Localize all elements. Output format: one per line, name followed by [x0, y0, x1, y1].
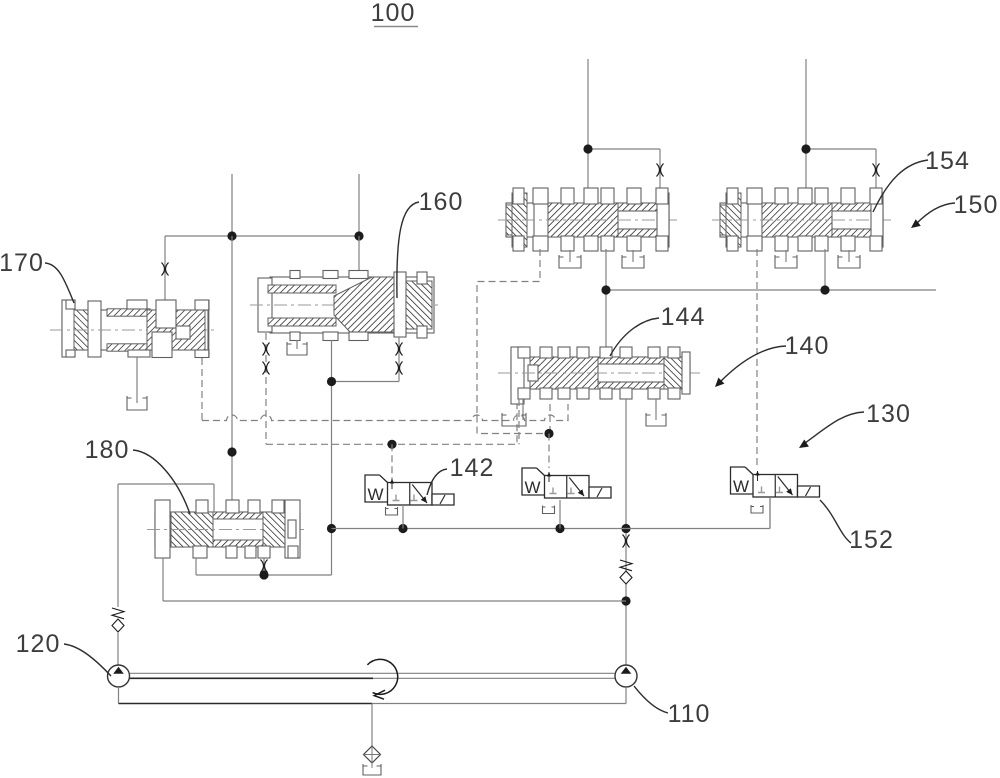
- label 154: [925, 147, 970, 175]
- label 140: [785, 332, 830, 360]
- label 120: [16, 630, 61, 658]
- tank under filter: [363, 764, 381, 775]
- tank under valve150L port2: [622, 250, 644, 268]
- tank under valve144 right: [646, 399, 666, 426]
- throttle on x165: [162, 263, 169, 276]
- throttle on x876: [873, 164, 880, 177]
- pilot dashed x477 lower: [477, 416, 549, 434]
- node at (626,528.5): [621, 524, 630, 533]
- svg-text:152: 152: [849, 526, 894, 554]
- pilot dashed valve160 bottom x266: [265, 333, 267, 444]
- label 144: [661, 303, 706, 331]
- svg-text:154: 154: [925, 147, 970, 175]
- pilot dashed valve150L down: [477, 249, 540, 416]
- wire horizontal y236: [165, 235, 359, 237]
- leader 170: [45, 263, 74, 303]
- wire below pump120: [118, 687, 120, 704]
- throttle on x266 a: [263, 343, 270, 356]
- svg-text:100: 100: [371, 0, 416, 27]
- label 160: [419, 188, 464, 216]
- tank under valve-mid: [543, 506, 555, 514]
- svg-text:142: 142: [450, 454, 495, 482]
- svg-text:144: 144: [661, 303, 706, 331]
- valve 154 block: [712, 188, 891, 251]
- wire valve180 bottom-left x163: [162, 558, 164, 601]
- wire valve152 out: [769, 498, 771, 529]
- valve 170 block: [50, 300, 216, 358]
- leader 154: [873, 160, 928, 212]
- pump 110: [615, 665, 637, 687]
- wire valve160 x331 down: [331, 340, 333, 529]
- label 152: [849, 526, 894, 554]
- pilot bus dashed y420.5: [202, 404, 568, 421]
- leader arrow 130: [799, 412, 864, 448]
- solenoid valve mid (under 144): [522, 468, 611, 498]
- spring check valve on x626: [620, 560, 632, 584]
- pilot bus dashed y444.3: [266, 404, 517, 444]
- wire y149 to x660: [588, 149, 660, 190]
- pilot dashed x550 from valve144: [549, 404, 551, 434]
- wire x626 valve144 down to pump110: [625, 399, 627, 665]
- throttle on x399 a: [396, 343, 403, 356]
- svg-text:140: 140: [785, 332, 830, 360]
- label 110: [668, 700, 711, 728]
- rotation arrow: [367, 659, 397, 699]
- node at (549,433.5): [544, 429, 553, 438]
- wire valve-mid out: [559, 500, 561, 529]
- svg-text:170: 170: [0, 249, 44, 277]
- tank under valve152: [751, 505, 763, 513]
- svg-text:110: 110: [668, 700, 711, 728]
- wire valve180 bottom x196 loop: [196, 529, 332, 576]
- tank under valve160: [287, 340, 307, 355]
- filter drop wire: [371, 704, 373, 748]
- bottom return line: [119, 703, 627, 705]
- wire x232 down to valve180: [231, 236, 233, 502]
- valve 144 block: [498, 347, 700, 404]
- tank under valve144 left: [502, 399, 526, 426]
- node at (560,528.5): [555, 524, 564, 533]
- label 150: [954, 191, 999, 219]
- label 130: [866, 400, 911, 428]
- tank under valve150L port1: [559, 250, 581, 268]
- wire x606 valve150L to valve144: [605, 249, 607, 348]
- valve 180 block: [147, 500, 308, 558]
- svg-text:130: 130: [866, 400, 911, 428]
- svg-text:180: 180: [85, 436, 130, 464]
- wire x359 down to valve160: [358, 236, 360, 278]
- throttle on x660: [657, 164, 664, 177]
- solenoid valve 142: [365, 475, 454, 505]
- wire vertical x806 top: [805, 59, 807, 192]
- svg-text:160: 160: [419, 188, 464, 216]
- node at (331.5,381.5): [327, 377, 336, 386]
- wire vertical left-2: [358, 174, 360, 236]
- pilot dashed valve170 x202 down: [201, 358, 203, 421]
- tank under valve154 port1: [775, 250, 797, 268]
- wire vertical left-1: [231, 174, 233, 236]
- leader arrow 150: [911, 203, 955, 228]
- node at (606,290): [601, 285, 610, 294]
- leader 152: [820, 500, 851, 543]
- node at (392,444.3): [387, 440, 396, 449]
- wire valve142 out: [402, 505, 404, 529]
- valve 150-left block: [498, 188, 677, 251]
- svg-text:W: W: [733, 477, 749, 496]
- throttle on x266 b: [263, 362, 270, 375]
- wire bus y528.5: [332, 499, 771, 529]
- node at (232,236): [227, 231, 236, 240]
- tank under valve154 port2: [838, 250, 860, 268]
- pilot dashed valve144 x519: [518, 399, 520, 444]
- leader 120: [64, 644, 111, 676]
- filter: [364, 746, 381, 768]
- pilot dashed valve154 to valve152: [756, 249, 758, 467]
- wire y149 to x876: [806, 149, 876, 192]
- node at (588,149): [583, 144, 592, 153]
- node at (626,601): [621, 596, 630, 605]
- throttle on x264: [261, 560, 268, 573]
- wire x118 down: [117, 484, 119, 607]
- throttle on x399 b: [396, 362, 403, 375]
- svg-text:W: W: [524, 478, 540, 497]
- node at (331.5,528.5): [327, 524, 336, 533]
- pilot dashed node392 to valve142: [391, 444, 393, 505]
- svg-text:120: 120: [16, 630, 61, 658]
- label 170: [0, 249, 44, 277]
- wire bus y290: [606, 289, 936, 291]
- solenoid valve 152: [731, 467, 820, 497]
- spring check valve on x118: [112, 608, 124, 632]
- leader 110: [634, 686, 668, 713]
- shaft double line lower: [130, 677, 615, 679]
- tank under valve170: [127, 357, 147, 410]
- svg-text:W: W: [367, 485, 383, 504]
- node at (806,149): [801, 144, 810, 153]
- wire below pump110: [625, 687, 627, 704]
- node at (359,236): [354, 231, 363, 240]
- wire y381 link: [332, 337, 400, 382]
- wire bus y601: [163, 600, 626, 602]
- throttle on x626: [623, 535, 630, 548]
- tank under valve142: [386, 507, 398, 515]
- node at (264,575): [259, 570, 268, 579]
- leader 160: [397, 202, 419, 298]
- pump 120: [108, 665, 130, 687]
- node at (825,290): [820, 285, 829, 294]
- leader arrow 140: [715, 346, 786, 387]
- node at (403,528.5): [398, 524, 407, 533]
- leader 144: [610, 318, 659, 356]
- label 142: [450, 454, 495, 482]
- wire y484 into valve180: [118, 484, 214, 512]
- label 180: [85, 436, 130, 464]
- wire x825 drop: [824, 249, 826, 290]
- svg-text:150: 150: [954, 191, 999, 219]
- leader 142: [427, 469, 447, 495]
- wire x118 to pump: [117, 632, 119, 665]
- wire drop x165 to valve170: [164, 236, 166, 300]
- pilot dashed node549 down to valve: [548, 434, 550, 469]
- node at (232,452): [227, 447, 236, 456]
- title 100: [371, 0, 418, 27]
- wire vertical x588 top: [587, 59, 589, 190]
- valve 160 block: [250, 271, 442, 341]
- wire valve180 bottom x264 throttle: [263, 558, 265, 575]
- shaft double line upper: [130, 672, 615, 674]
- leader 180: [133, 450, 190, 514]
